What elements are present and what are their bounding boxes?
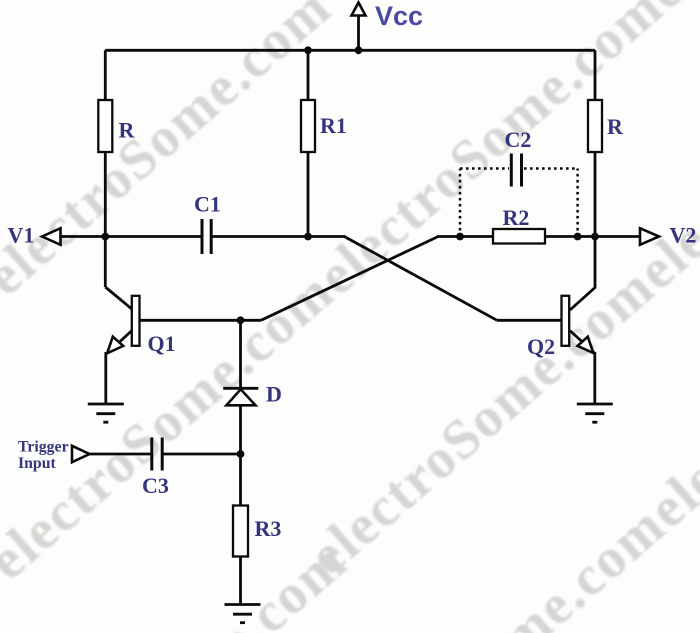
svg-text:Q1: Q1 [148,331,176,356]
svg-text:R1: R1 [320,113,347,138]
svg-text:Input: Input [18,455,57,472]
svg-text:V1: V1 [8,223,35,248]
svg-text:R: R [607,114,624,139]
svg-text:D: D [266,382,282,407]
svg-text:C3: C3 [142,473,169,498]
svg-text:Q2: Q2 [527,334,555,359]
svg-text:C2: C2 [505,127,532,152]
svg-text:C1: C1 [194,192,221,217]
svg-text:R3: R3 [255,516,282,541]
svg-text:R2: R2 [503,205,530,230]
svg-text:Vcc: Vcc [375,1,423,31]
svg-text:R: R [119,118,136,143]
svg-text:V2: V2 [670,223,697,248]
svg-text:Trigger: Trigger [18,439,69,456]
